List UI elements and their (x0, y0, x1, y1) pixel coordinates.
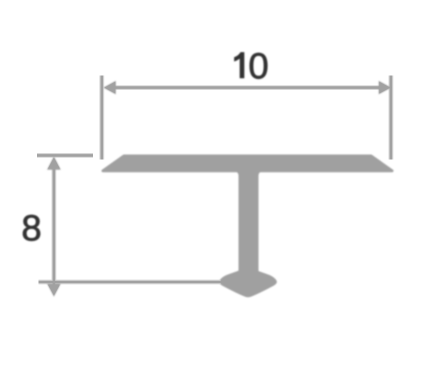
svg-text:0: 0 (248, 46, 268, 87)
svg-text:8: 8 (21, 207, 41, 248)
